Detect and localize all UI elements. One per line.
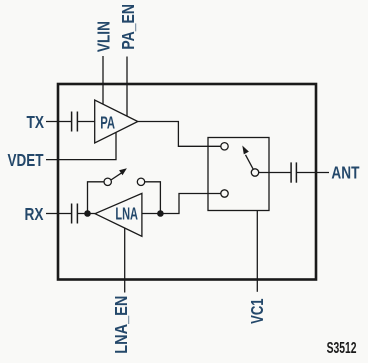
wire PA_EN lead xyxy=(126,57,128,117)
antenna switch SW1 box xyxy=(208,138,269,211)
bypass switch contact right xyxy=(137,178,144,185)
wire bypass left branch xyxy=(88,182,105,214)
junction dot LNA input xyxy=(157,210,164,217)
capacitor C1 (TX dc-block) xyxy=(72,112,78,132)
switch contact TX throw xyxy=(221,143,228,150)
bypass switch arm arrow xyxy=(111,173,122,180)
wire RX lead xyxy=(46,213,72,215)
capacitor C3 (ANT dc-block) xyxy=(291,162,296,182)
IC block outline xyxy=(58,84,316,280)
wire cap to PA input xyxy=(77,121,94,123)
svg-text:VDET: VDET xyxy=(8,150,44,170)
bypass switch contact left xyxy=(104,178,111,185)
switch pole contact xyxy=(251,169,258,176)
capacitor C2 (RX dc-block) xyxy=(72,204,78,224)
svg-text:VC1: VC1 xyxy=(247,298,267,324)
wire LNA input xyxy=(142,213,161,215)
svg-text:LNA_EN: LNA_EN xyxy=(111,296,131,354)
wire RX node to switch xyxy=(160,194,220,214)
amplifier PA xyxy=(95,100,138,143)
wire LNA_EN lead xyxy=(124,228,126,292)
wire cap to LNA output node xyxy=(77,213,95,215)
wire cap to ANT xyxy=(296,172,329,174)
wire VLIN lead xyxy=(102,56,104,105)
wire pole to ANT cap xyxy=(259,172,291,174)
wire PA output to switch xyxy=(138,122,221,147)
switch arm arrow xyxy=(246,155,254,169)
amplifier LNA xyxy=(95,193,142,236)
wire VC1 lead xyxy=(256,211,258,292)
svg-text:TX: TX xyxy=(27,112,45,132)
switch contact RX throw xyxy=(221,190,228,197)
svg-text:ANT: ANT xyxy=(331,162,359,182)
wire TX lead xyxy=(46,121,72,123)
svg-text:RX: RX xyxy=(25,204,44,224)
wire VDET tap from PA xyxy=(46,132,116,159)
junction dot LNA output xyxy=(84,210,91,217)
svg-text:PA_EN: PA_EN xyxy=(118,4,138,50)
svg-text:PA: PA xyxy=(100,113,115,133)
svg-text:S3512: S3512 xyxy=(327,340,357,357)
svg-text:VLIN: VLIN xyxy=(94,21,114,52)
svg-text:LNA: LNA xyxy=(115,204,138,224)
wire bypass right branch xyxy=(145,182,161,214)
